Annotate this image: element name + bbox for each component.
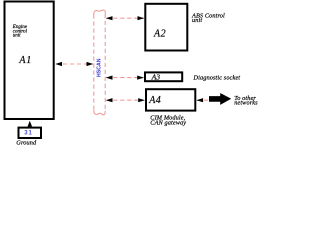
big arrow to other networks	[209, 93, 231, 105]
HSCAN bus right rail	[104, 14, 106, 111]
svg-text:unit: unit	[192, 17, 202, 24]
svg-text:Ground: Ground	[16, 140, 37, 147]
wire HSCAN bus to A4	[106, 98, 145, 102]
svg-text:unit: unit	[13, 34, 21, 39]
ABS control unit box A2	[145, 4, 187, 51]
svg-text:A3: A3	[151, 73, 161, 82]
svg-text:A4: A4	[148, 95, 161, 106]
svg-text:CAN gateway: CAN gateway	[150, 119, 186, 126]
net label HSCAN	[97, 58, 103, 77]
label ABS Control unit	[191, 12, 225, 24]
HSCAN bus left rail	[93, 15, 95, 111]
HSCAN bus bottom break squiggle	[94, 110, 105, 115]
svg-text:A2: A2	[153, 29, 166, 40]
svg-text:A1: A1	[18, 55, 32, 66]
label To other networks	[234, 95, 258, 106]
HSCAN bus top break squiggle	[94, 10, 106, 15]
svg-text:networks: networks	[234, 99, 258, 106]
engine control unit box A1	[5, 2, 54, 120]
wire HSCAN bus to A3	[106, 76, 144, 80]
svg-text:Diagnostic socket: Diagnostic socket	[193, 74, 241, 81]
wire A4 to other networks	[196, 98, 208, 102]
label Diagnostic socket	[193, 74, 241, 81]
svg-text:HSCAN: HSCAN	[97, 58, 103, 77]
diagnostic socket box A3	[145, 72, 182, 81]
CIM module CAN gateway box A4	[146, 89, 195, 110]
label CIM Module, CAN gateway	[150, 114, 186, 126]
svg-text:31: 31	[24, 131, 32, 137]
ground terminal box 31	[19, 128, 42, 138]
wire HSCAN bus to A2	[106, 16, 144, 20]
wire ground to A1	[28, 121, 33, 128]
wire A1 to HSCAN bus	[55, 62, 93, 66]
label Ground	[16, 140, 37, 147]
